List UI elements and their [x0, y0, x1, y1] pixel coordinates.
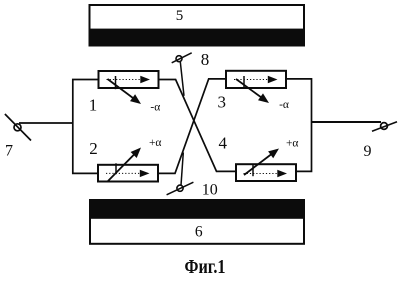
wire: right bus to output terminal 9	[312, 121, 382, 123]
svg-text:6: 6	[195, 224, 203, 241]
tap terminal 8 (circle with slash)	[172, 53, 192, 63]
svg-text:+α: +α	[286, 138, 299, 150]
phase shifter box 3	[226, 71, 286, 103]
svg-text:3: 3	[217, 93, 226, 112]
plate 6 (bottom electrode)	[90, 199, 305, 243]
svg-text:Фиг.1: Фиг.1	[185, 257, 226, 276]
tap terminal 10 (circle with slash)	[167, 182, 194, 195]
svg-text:10: 10	[202, 181, 218, 198]
svg-text:4: 4	[219, 134, 228, 153]
svg-text:8: 8	[201, 50, 210, 69]
wire: left bus splitting to box1 and box2	[73, 80, 99, 174]
wire: box1 output crossing down to box4 input	[159, 80, 237, 172]
svg-text:2: 2	[89, 139, 98, 158]
wire: stem from tap 10 to crossing wire	[181, 153, 183, 186]
terminal 7 (circle with slash)	[5, 114, 31, 141]
svg-text:-α: -α	[150, 101, 160, 113]
plate 5 (top electrode)	[89, 5, 305, 46]
phase shifter box 4	[236, 149, 296, 182]
wire: stem from tap 8 to crossing wire	[180, 62, 184, 96]
svg-text:1: 1	[89, 95, 98, 114]
svg-text:9: 9	[364, 143, 372, 160]
svg-text:5: 5	[176, 8, 184, 24]
wire: right bus joining box3 and box4 outputs	[286, 79, 312, 171]
phase shifter box 2	[98, 148, 158, 182]
wire: box2 output crossing up to box3 input	[158, 79, 226, 173]
phase shifter box 1	[99, 71, 159, 104]
svg-text:7: 7	[5, 142, 13, 159]
svg-text:+α: +α	[149, 137, 162, 149]
terminal 9 (circle with slash)	[372, 122, 397, 131]
wire: input terminal 7 to left bus	[19, 122, 73, 124]
svg-text:-α: -α	[279, 99, 289, 111]
